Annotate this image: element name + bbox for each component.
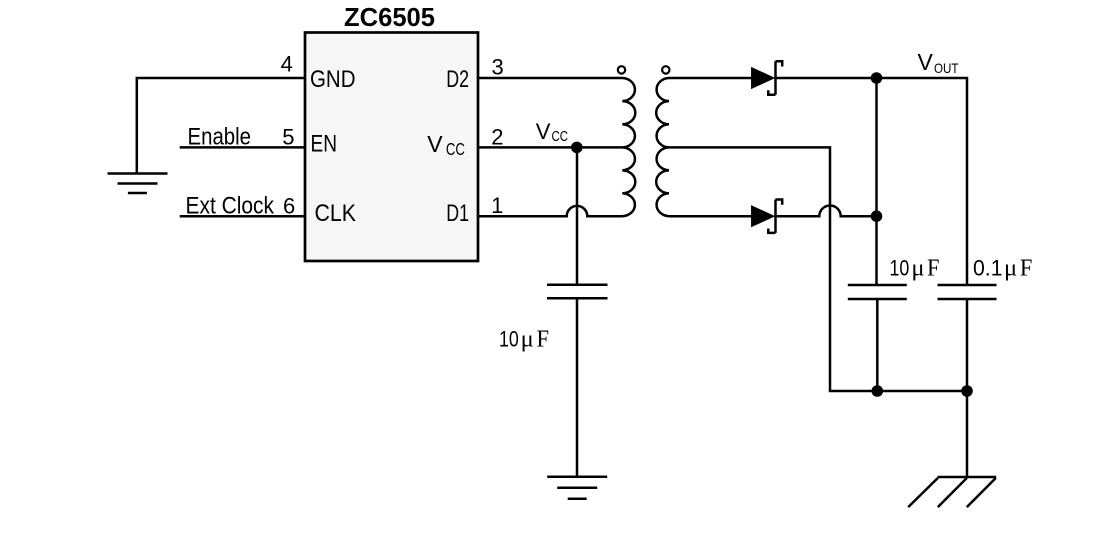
capacitor C3 10uF (VCC decoupling) [547, 285, 608, 299]
svg-text:CC: CC [446, 139, 465, 159]
svg-text:V: V [536, 119, 551, 144]
junction node rail C1 [872, 385, 884, 397]
svg-text:4: 4 [281, 51, 293, 76]
svg-text:D1: D1 [446, 200, 469, 227]
wire pin6 CLK [180, 215, 305, 218]
ground earth symbol (GND pin) [108, 174, 168, 194]
svg-text:V: V [918, 49, 934, 75]
wire pin2 VCC to primary center tap [478, 146, 623, 149]
svg-text:GND: GND [310, 66, 356, 93]
wire pin4 GND to ground [137, 78, 305, 174]
svg-text:10: 10 [499, 326, 519, 351]
svg-text:F: F [537, 325, 550, 352]
wire diode output vertical to C1 [875, 78, 878, 285]
svg-text:6: 6 [283, 193, 295, 218]
svg-text:μ: μ [1004, 255, 1017, 282]
pin label VCC (pin 2) [427, 131, 465, 159]
svg-text:3: 3 [491, 55, 503, 80]
svg-text:μ: μ [911, 255, 924, 282]
transformer T1 primary phase dot [618, 66, 625, 73]
svg-text:1: 1 [491, 193, 503, 218]
junction node VCC [571, 142, 583, 154]
wire secondary bottom to diode anode [669, 215, 752, 218]
svg-text:CLK: CLK [315, 200, 357, 227]
wire C1 bottom to rail [876, 299, 879, 391]
chassis ground symbol [908, 477, 996, 507]
svg-text:10: 10 [890, 256, 910, 281]
junction node bottom diode output [871, 210, 883, 222]
svg-text:F: F [1020, 255, 1033, 282]
svg-text:OUT: OUT [934, 60, 959, 76]
svg-text:ZC6505: ZC6505 [344, 4, 435, 32]
svg-text:D2: D2 [446, 66, 469, 93]
svg-text:F: F [927, 255, 940, 282]
svg-text:V: V [427, 131, 443, 157]
wire rail to chassis ground [966, 391, 969, 477]
ground earth symbol (C3) [547, 477, 607, 499]
capacitor C2 0.1uF (output) [938, 285, 997, 299]
capacitor C1 10uF (output) [848, 285, 907, 299]
wire pin3 D2 to transformer primary top [478, 77, 623, 80]
wire top diode cathode to VOUT corner and down to C2 [776, 78, 968, 285]
net label VCC [536, 119, 568, 145]
schottky diode top [752, 61, 782, 94]
svg-text:CC: CC [552, 128, 569, 145]
wire secondary top to diode anode [669, 77, 752, 80]
wire pin1 D1 to primary bottom (hop over C3 wire) [478, 206, 623, 216]
svg-text:2: 2 [491, 124, 503, 149]
IC U1 body (ZC6505) [305, 33, 478, 262]
junction node rail C2 [961, 385, 973, 397]
transformer T1 secondary winding [656, 78, 669, 216]
value label 10uF (C3) [499, 325, 549, 352]
value label 10uF (C1) [890, 255, 940, 282]
junction node VOUT top [871, 72, 883, 84]
wire pin5 EN [180, 146, 305, 149]
wire C3 bottom to ground [576, 298, 579, 477]
net label VOUT [918, 49, 959, 76]
wire secondary center tap to ground rail [669, 147, 967, 391]
value label 0.1uF (C2) [973, 255, 1032, 282]
svg-text:5: 5 [282, 125, 294, 150]
wire C2 bottom to rail [966, 299, 969, 391]
wire bottom diode cathode to junction (hop over tap wire) [776, 206, 877, 217]
transformer T1 secondary phase dot [662, 66, 669, 73]
svg-text:EN: EN [311, 131, 338, 158]
schottky diode bottom [752, 200, 782, 233]
svg-text:μ: μ [521, 325, 534, 352]
wire VCC node down to capacitor C3 [576, 147, 579, 284]
svg-text:0.1: 0.1 [973, 256, 1003, 281]
transformer T1 primary winding [622, 78, 635, 216]
